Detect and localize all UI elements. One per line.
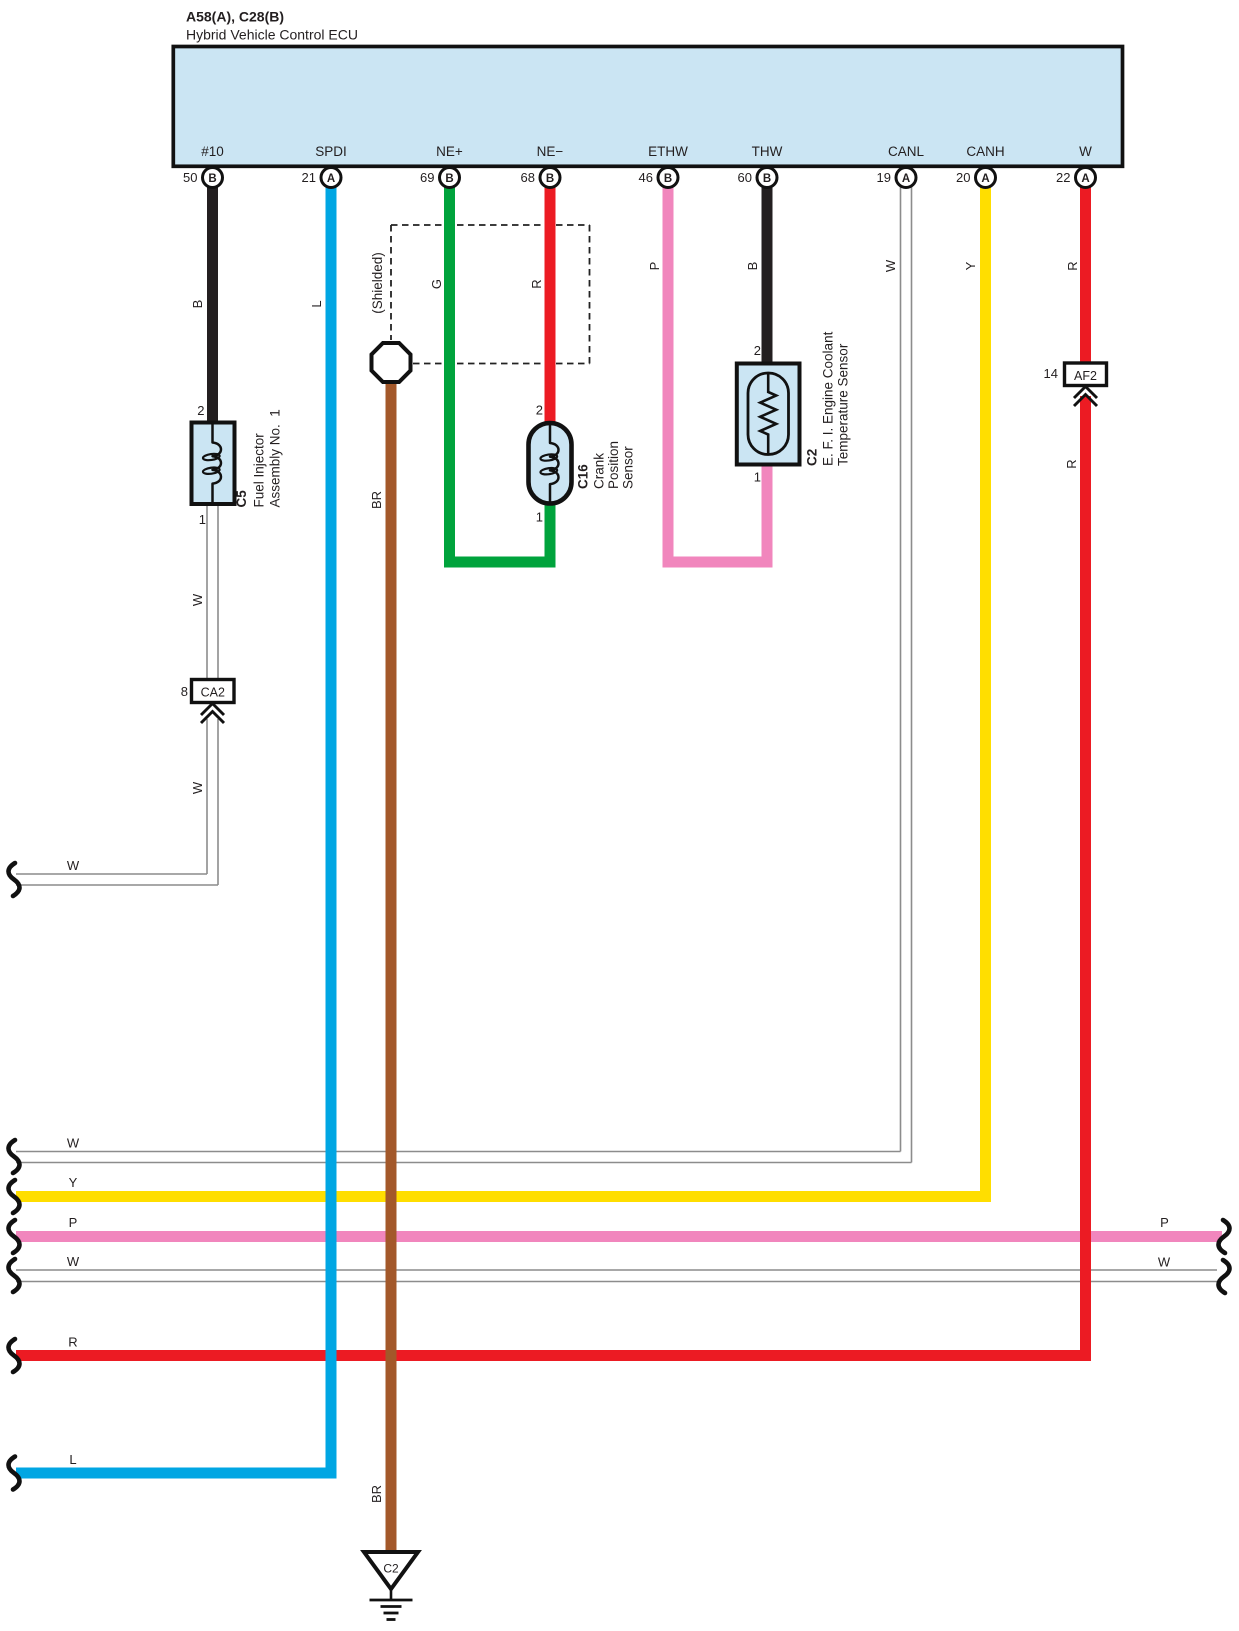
svg-text:A: A — [327, 173, 335, 185]
svg-text:1: 1 — [536, 510, 543, 525]
svg-text:Crank: Crank — [592, 453, 607, 489]
svg-text:R: R — [1064, 459, 1079, 468]
svg-text:A58(A), C28(B): A58(A), C28(B) — [186, 9, 284, 25]
svg-text:C16: C16 — [576, 464, 591, 489]
svg-text:B: B — [190, 300, 205, 309]
svg-text:C2: C2 — [805, 449, 820, 466]
svg-text:A: A — [902, 173, 910, 185]
svg-text:W: W — [190, 593, 205, 606]
svg-text:8: 8 — [181, 684, 188, 699]
svg-text:2: 2 — [754, 343, 761, 358]
svg-text:50: 50 — [183, 170, 197, 185]
svg-text:69: 69 — [420, 170, 434, 185]
svg-text:THW: THW — [752, 144, 783, 159]
svg-text:W: W — [67, 1136, 80, 1151]
svg-text:Hybrid Vehicle Control ECU: Hybrid Vehicle Control ECU — [186, 27, 358, 43]
svg-text:60: 60 — [738, 170, 752, 185]
svg-text:B: B — [745, 262, 760, 271]
svg-text:B: B — [763, 173, 771, 185]
svg-text:W: W — [67, 858, 80, 873]
svg-text:G: G — [429, 279, 444, 289]
svg-text:NE+: NE+ — [436, 144, 463, 159]
svg-text:R: R — [529, 279, 544, 288]
svg-text:2: 2 — [536, 403, 543, 418]
svg-text:68: 68 — [521, 170, 535, 185]
svg-text:B: B — [664, 173, 672, 185]
svg-text:Y: Y — [963, 261, 978, 270]
svg-text:AF2: AF2 — [1074, 369, 1097, 383]
svg-text:L: L — [309, 300, 324, 307]
svg-text:Assembly No. 1: Assembly No. 1 — [268, 409, 283, 507]
svg-text:2: 2 — [197, 403, 204, 418]
svg-text:C5: C5 — [234, 490, 249, 508]
svg-text:A: A — [1081, 173, 1089, 185]
svg-text:B: B — [445, 173, 453, 185]
svg-text:1: 1 — [754, 470, 761, 485]
svg-text:SPDI: SPDI — [315, 144, 347, 159]
svg-text:14: 14 — [1044, 366, 1058, 381]
svg-text:Fuel Injector: Fuel Injector — [252, 433, 267, 508]
svg-text:R: R — [1065, 261, 1080, 270]
svg-text:ETHW: ETHW — [648, 144, 688, 159]
svg-text:22: 22 — [1056, 170, 1070, 185]
svg-text:B: B — [208, 173, 216, 185]
svg-text:W: W — [1079, 144, 1092, 159]
svg-text:BR: BR — [369, 1485, 384, 1503]
svg-text:E. F. I. Engine Coolant: E. F. I. Engine Coolant — [821, 331, 836, 466]
svg-text:20: 20 — [956, 170, 970, 185]
svg-text:W: W — [67, 1254, 80, 1269]
svg-text:Sensor: Sensor — [621, 446, 636, 489]
svg-text:CA2: CA2 — [201, 686, 225, 700]
svg-text:P: P — [69, 1215, 78, 1230]
svg-text:B: B — [546, 173, 554, 185]
svg-text:R: R — [68, 1335, 77, 1350]
svg-text:CANH: CANH — [966, 144, 1004, 159]
svg-text:Position: Position — [606, 441, 621, 489]
svg-text:#10: #10 — [201, 144, 224, 159]
svg-text:21: 21 — [302, 170, 316, 185]
svg-text:BR: BR — [369, 491, 384, 509]
svg-text:A: A — [981, 173, 989, 185]
svg-text:P: P — [1160, 1215, 1169, 1230]
svg-text:19: 19 — [877, 170, 891, 185]
svg-text:C2: C2 — [383, 1562, 399, 1576]
svg-text:(Shielded): (Shielded) — [370, 252, 385, 314]
svg-text:Y: Y — [69, 1175, 78, 1190]
svg-text:46: 46 — [639, 170, 653, 185]
svg-text:Temperature Sensor: Temperature Sensor — [836, 343, 851, 466]
svg-text:W: W — [1158, 1255, 1171, 1270]
svg-text:1: 1 — [199, 512, 206, 527]
svg-text:L: L — [69, 1452, 76, 1467]
svg-text:P: P — [647, 262, 662, 271]
svg-text:NE−: NE− — [537, 144, 564, 159]
svg-text:W: W — [883, 259, 898, 272]
svg-text:CANL: CANL — [888, 144, 925, 159]
svg-text:W: W — [190, 781, 205, 794]
